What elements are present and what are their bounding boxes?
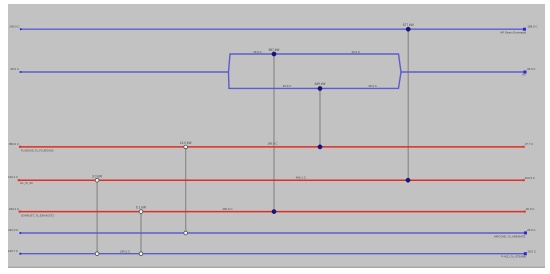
- svg-text:260.0 C: 260.0 C: [222, 207, 232, 211]
- svg-text:466.1 C: 466.1 C: [296, 175, 306, 179]
- svg-text:36.9 C: 36.9 C: [352, 50, 361, 54]
- svg-text:36.9 C: 36.9 C: [526, 207, 535, 211]
- svg-text:950.0 C: 950.0 C: [9, 142, 19, 146]
- svg-text:14.0 kW: 14.0 kW: [180, 141, 192, 145]
- svg-text:28.0 C: 28.0 C: [527, 228, 536, 232]
- svg-text:649 kW: 649 kW: [315, 82, 326, 86]
- svg-text:EXHAUST_To_EXHAUST2: EXHAUST_To_EXHAUST2: [21, 213, 54, 217]
- svg-text:36.9 C: 36.9 C: [527, 67, 536, 71]
- svg-text:168.7 C: 168.7 C: [8, 249, 18, 253]
- svg-text:36.9 C: 36.9 C: [283, 84, 292, 88]
- svg-text:186.0 C: 186.0 C: [267, 142, 277, 146]
- svg-text:28.0 C: 28.0 C: [528, 249, 537, 253]
- svg-text:180.2 C: 180.2 C: [9, 207, 19, 211]
- svg-text:H1_To_S0: H1_To_S0: [20, 181, 33, 185]
- svg-text:200.0 C: 200.0 C: [9, 24, 19, 28]
- svg-text:240.0 C: 240.0 C: [8, 228, 18, 232]
- svg-text:37.7 C: 37.7 C: [525, 142, 534, 146]
- svg-text:188.0 C: 188.0 C: [527, 24, 537, 28]
- svg-text:567 kW: 567 kW: [269, 48, 280, 52]
- svg-text:36.9 C: 36.9 C: [253, 50, 262, 54]
- svg-text:FLUEGAS_To_FLUEGAS0: FLUEGAS_To_FLUEGAS0: [21, 148, 54, 152]
- svg-text:36.9 C: 36.9 C: [368, 84, 377, 88]
- svg-text:P-H2O_To_STEAM0: P-H2O_To_STEAM0: [501, 255, 526, 259]
- svg-text:HP Steam Generated: HP Steam Generated: [500, 31, 526, 35]
- svg-text:6.1 kW: 6.1 kW: [136, 206, 146, 210]
- svg-text:240.0 C: 240.0 C: [120, 250, 130, 254]
- svg-text:419.1 C: 419.1 C: [8, 175, 18, 179]
- svg-text:A2: A2: [522, 72, 526, 76]
- svg-text:404.9 C: 404.9 C: [525, 176, 535, 180]
- svg-text:AIRCOND_To_AIRHEATE: AIRCOND_To_AIRHEATE: [494, 234, 526, 238]
- svg-text:3.0 kW: 3.0 kW: [92, 174, 102, 178]
- svg-text:677 kW: 677 kW: [403, 23, 414, 27]
- svg-text:90.0 C: 90.0 C: [10, 67, 19, 71]
